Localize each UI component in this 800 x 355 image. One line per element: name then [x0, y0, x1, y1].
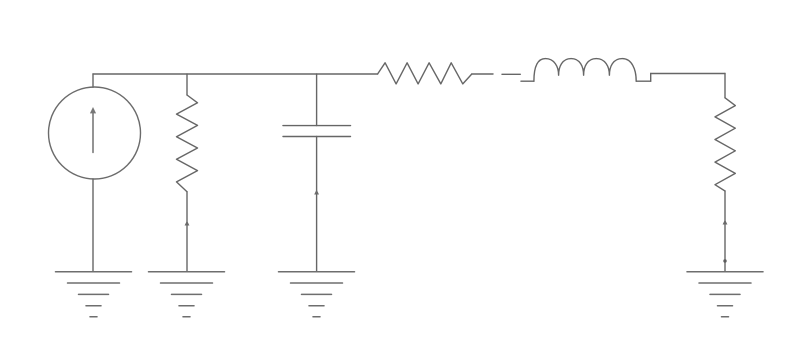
wire segment before inductor (after gap): [502, 73, 520, 75]
wire current source top lead: [92, 74, 94, 87]
wire R3 bottom lead: [724, 191, 726, 272]
wire top rail right of inductor: [651, 73, 725, 75]
inductor L1 left lead: [521, 80, 534, 82]
wire step up after inductor: [650, 74, 652, 82]
resistor R3 (vertical zigzag): [715, 98, 735, 191]
resistor R2 (horizontal zigzag): [378, 63, 472, 84]
ground G1 under current source: [56, 272, 132, 317]
ground G4 under R3: [687, 272, 763, 317]
inductor L1 humps: [534, 59, 636, 82]
wire C1 top lead: [316, 74, 318, 126]
capacitor C1 plates: [283, 126, 351, 137]
wire top rail from current source to series resistor: [93, 73, 378, 75]
wire after R2: [472, 73, 493, 75]
arrowhead marker on C1 lead: [314, 190, 319, 195]
wire R1 bottom lead: [186, 192, 188, 272]
resistor R1 (vertical zigzag): [177, 95, 198, 192]
wire C1 bottom lead: [316, 137, 318, 272]
wire R3 top lead: [724, 74, 726, 98]
arrowhead marker on R1 lead: [185, 221, 190, 226]
arrowhead marker on R3 lead: [723, 220, 728, 225]
ground G2 under R1: [149, 272, 225, 317]
current source I1 circle: [49, 87, 141, 179]
wire R1 top lead: [186, 74, 188, 95]
junction dot on R3 lead: [723, 259, 726, 262]
wire current source bottom lead: [92, 179, 94, 272]
current source I1 arrow: [90, 107, 96, 153]
ground G3 under capacitor: [279, 272, 355, 317]
inductor L1 right lead: [636, 80, 651, 82]
